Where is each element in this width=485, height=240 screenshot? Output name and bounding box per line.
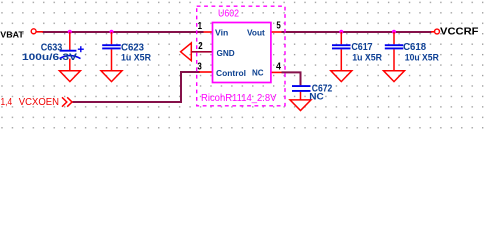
svg-text:1u X5R: 1u X5R (352, 53, 382, 64)
svg-text:C618: C618 (403, 42, 426, 53)
svg-text:RicohR1114_2.8V: RicohR1114_2.8V (201, 93, 277, 104)
svg-text:NC: NC (252, 67, 264, 77)
svg-text:1: 1 (198, 21, 203, 32)
svg-text:U602: U602 (218, 9, 239, 20)
svg-text:100u/6.3V: 100u/6.3V (22, 52, 78, 63)
svg-text:4: 4 (276, 62, 281, 73)
svg-text:3: 3 (197, 61, 202, 72)
svg-text:10u X5R: 10u X5R (405, 53, 439, 64)
svg-text:1,4: 1,4 (1, 97, 13, 108)
svg-text:2: 2 (198, 41, 203, 52)
svg-text:C617: C617 (351, 42, 372, 53)
svg-text:Vout: Vout (247, 27, 265, 37)
svg-text:VCCRF: VCCRF (440, 27, 479, 38)
svg-text:VBAT: VBAT (0, 30, 24, 40)
svg-text:Control: Control (216, 68, 246, 78)
svg-text:5: 5 (276, 20, 281, 31)
svg-text:GND: GND (217, 48, 235, 58)
svg-text:Vin: Vin (215, 27, 228, 37)
svg-text:VCXOEN: VCXOEN (19, 97, 59, 108)
svg-text:NC: NC (309, 92, 324, 103)
svg-text:1u X5R: 1u X5R (121, 52, 151, 63)
